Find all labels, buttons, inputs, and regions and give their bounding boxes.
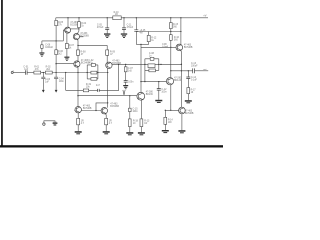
capacitor C feedback 4n7: [98, 89, 100, 92]
compensation loop C8: [145, 59, 159, 82]
wire jog to QR collector: [96, 103, 108, 111]
wire Q8 base line: [165, 109, 178, 111]
page border bottom: [0, 145, 223, 147]
svg-text:BC546B: BC546B: [185, 113, 194, 115]
transistor Q5 VAS: [176, 44, 183, 51]
svg-text:100n: 100n: [133, 111, 139, 113]
svg-text:100n: 100n: [161, 91, 167, 93]
wire Q5 emitter column: [180, 50, 183, 107]
svg-text:100n: 100n: [59, 81, 65, 83]
svg-text:0.1uF: 0.1uF: [191, 80, 197, 82]
resistor R10 on rail: [113, 16, 121, 20]
node divider C06 tap: [55, 40, 56, 41]
svg-text:BC546B: BC546B: [81, 63, 90, 65]
transistor Q4: [106, 62, 112, 68]
resistor R19 feedback: [83, 89, 88, 92]
svg-text:BC546B: BC546B: [110, 106, 119, 108]
capacitor C6: [41, 41, 43, 45]
resistor R17: [187, 88, 190, 94]
svg-text:+V: +V: [203, 14, 207, 18]
Zobel leg x188.3: [187, 71, 189, 77]
leg x129.8 C+R: [129, 96, 131, 108]
wire feedback leg x118.6: [99, 64, 118, 90]
wire Q2 bottom to tail line: [76, 39, 79, 45]
wire: [27, 72, 34, 74]
wire R4 to Q2: [77, 28, 79, 35]
resistor RR emitter: [105, 114, 106, 119]
svg-text:BC546B: BC546B: [184, 47, 193, 49]
wire VAS base column: [140, 44, 142, 92]
resistor RF mid of cluster: [91, 71, 97, 74]
wire bias line y44.4: [136, 43, 148, 45]
capacitor C10 bias column: [135, 18, 137, 30]
wire Q1 to R7: [66, 33, 68, 44]
svg-text:1uF: 1uF: [45, 81, 50, 83]
wire bias line y31.5: [136, 31, 181, 33]
ground arrow x124: [123, 90, 125, 95]
svg-text:out: out: [203, 68, 206, 71]
wire line y47.3 to Q5 base: [141, 46, 176, 48]
wire input line: [52, 72, 107, 74]
capacitor C4: [54, 77, 58, 79]
wire Q2 emitter stub: [80, 36, 84, 38]
capacitor C3: [42, 73, 44, 78]
junction dots on rail: [67, 17, 68, 18]
RC leg x158.8: [158, 82, 160, 89]
wire output line: [171, 70, 193, 72]
transistor Q7 driver: [166, 78, 173, 85]
resistor R1: [34, 71, 41, 74]
resistor R2: [45, 71, 52, 74]
wire Q1 base drop: [63, 30, 64, 41]
wire +V supply rail: [56, 17, 208, 19]
page border left: [1, 0, 3, 146]
wire QL base stub: [73, 110, 76, 112]
svg-text:BC546B: BC546B: [83, 108, 92, 110]
resistor R9: [106, 50, 109, 55]
wire Q3 column down: [77, 67, 79, 107]
wire Q6 emitter leg: [140, 100, 142, 119]
node input terminal: [11, 72, 13, 74]
ground arrow C4: [55, 79, 57, 90]
resistor R15: [170, 18, 172, 23]
svg-text:470uF: 470uF: [127, 27, 134, 29]
wire divider column top: [55, 18, 57, 21]
capacitor C11 rail decouple: [123, 18, 125, 28]
wire divider column mid: [55, 26, 57, 50]
ground R7: [66, 49, 68, 57]
svg-text:100uF: 100uF: [191, 65, 198, 67]
svg-text:1000uF: 1000uF: [45, 47, 53, 49]
resistor R4: [78, 18, 80, 22]
resistor RL emitter: [77, 113, 79, 119]
wire: [41, 72, 46, 74]
wire Q1 collector to rail: [67, 18, 69, 27]
wire input: [13, 72, 25, 74]
wire driver base line y95.8: [78, 95, 137, 97]
wire VAS line y64.4: [112, 63, 181, 65]
resistor R5: [55, 20, 58, 25]
transistor QR output right: [101, 108, 107, 114]
capacitor C13 output: [193, 68, 195, 73]
svg-text:1R: 1R: [144, 123, 147, 125]
wire divider column lower: [55, 55, 57, 78]
wire Q3 base line: [56, 63, 74, 65]
capacitor C5 rail decouple: [106, 18, 108, 28]
resistor R13: [140, 119, 143, 127]
transistor Q8 output: [179, 107, 186, 114]
ground arrow C3: [42, 79, 44, 90]
ground C6: [41, 48, 43, 52]
resistor RF2 bottom of cluster: [91, 78, 97, 81]
resistor R7: [65, 44, 68, 49]
svg-text:470uF: 470uF: [97, 27, 104, 29]
capacitor C1: [26, 70, 28, 74]
resistor R8: [77, 50, 80, 55]
transistor Q3: [74, 61, 80, 67]
svg-text:0.6mA: 0.6mA: [162, 45, 168, 48]
wire Q1 emitter right: [71, 28, 79, 30]
capacitor C2 top of cluster: [91, 64, 95, 67]
svg-text:1uF: 1uF: [24, 69, 29, 71]
trimmer R12: [148, 32, 150, 45]
resistor R18: [129, 119, 132, 127]
wire Q7 emitter column: [170, 85, 172, 111]
wire Q4 bottom riser: [107, 68, 109, 107]
transistor Q6 driver: [137, 92, 145, 100]
transistor Q2: [73, 34, 79, 40]
resistor R6: [55, 50, 58, 55]
svg-text:BD140: BD140: [174, 80, 182, 82]
ground Q8 emitter: [181, 114, 183, 130]
feedback network cluster rails: [87, 65, 98, 79]
svg-text:1R: 1R: [115, 14, 118, 16]
wire tail line: [78, 44, 107, 46]
wire Q7 base line: [141, 81, 166, 83]
svg-text:100n: 100n: [128, 82, 134, 84]
wire C06 branch: [42, 40, 64, 42]
svg-text:BD139: BD139: [146, 94, 154, 96]
wire Q5 collector riser: [180, 18, 182, 45]
input ground terminal: [43, 123, 45, 125]
capacitor C7 leg x125.7: [125, 64, 127, 66]
transistor Q1: [65, 27, 71, 33]
resistor R14 leg: [164, 110, 166, 117]
wire QL-QR link: [81, 110, 101, 112]
transistor QL output left: [75, 107, 81, 113]
resistor R16: [170, 35, 173, 41]
